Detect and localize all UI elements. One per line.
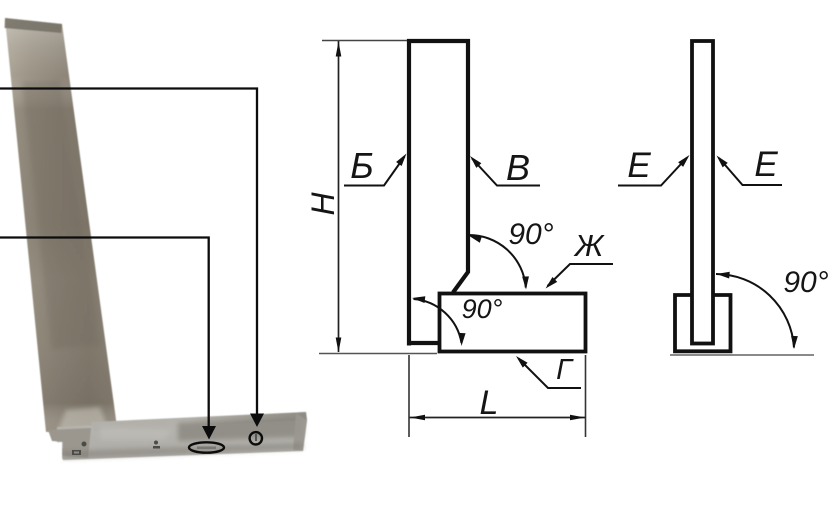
label V (Cyrillic В) with leader: [468, 147, 540, 188]
svg-text:90°: 90°: [508, 218, 553, 251]
L left extension line: [408, 355, 410, 437]
circle annotation around hole: [250, 432, 262, 444]
label Zh (Cyrillic Ж) with leader: [543, 228, 613, 291]
L right extension line: [585, 355, 587, 437]
label E left with leader: [618, 146, 692, 186]
ground line: [670, 354, 814, 356]
label E right with leader: [714, 145, 782, 185]
L dimension line: [410, 415, 586, 421]
H dimension line: [336, 41, 342, 353]
svg-text:В: В: [506, 147, 530, 188]
callout leader to hole (circle): [0, 89, 264, 428]
H top extension line: [322, 40, 407, 42]
svg-text:90°: 90°: [462, 294, 503, 324]
side-view blade outline: [692, 41, 713, 344]
label B (Cyrillic Б) with leader: [344, 145, 409, 186]
svg-text:90°: 90°: [783, 266, 828, 299]
callout leader to stamp (oval): [0, 238, 216, 440]
svg-text:L: L: [480, 384, 499, 422]
side-view base outline: [675, 295, 731, 351]
front-view blade bottom edge: [407, 341, 440, 345]
svg-text:Г: Г: [556, 354, 574, 386]
svg-text:Б: Б: [350, 145, 373, 186]
photo base (metal stock bar): [45, 412, 307, 462]
oval annotation around stamp: [189, 442, 224, 452]
svg-text:Е: Е: [627, 146, 651, 185]
lower 90° angle arc: [412, 295, 466, 347]
photo blade (metal square vertical ruler): [5, 18, 118, 432]
side-view 90° angle arc: [716, 271, 798, 350]
svg-text:Е: Е: [754, 145, 778, 184]
H bottom extension line: [319, 353, 437, 355]
label G (Cyrillic Г) with leader: [514, 354, 581, 388]
svg-text:Ж: Ж: [573, 228, 605, 263]
front-view blade outline: [409, 41, 468, 346]
stamp marks on base: [72, 441, 160, 456]
svg-text:H: H: [305, 192, 341, 216]
front-view base outline: [440, 294, 586, 352]
upper 90° angle arc: [467, 232, 529, 289]
